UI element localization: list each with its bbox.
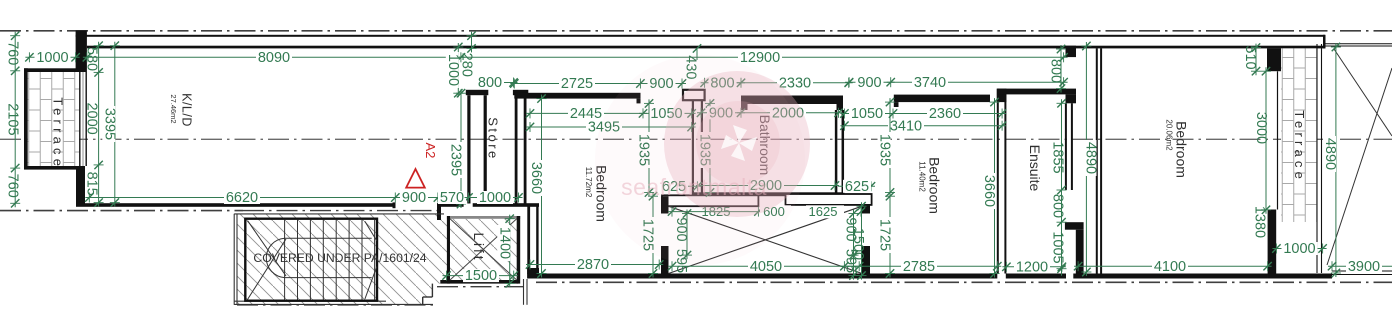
svg-text:1200: 1200 <box>1016 259 1048 275</box>
open terrace bottom thin lines <box>1332 270 1392 272</box>
svg-text:625: 625 <box>845 179 869 195</box>
dim 900 bedroom2 top opening <box>845 75 895 91</box>
shaft X diagonals <box>669 206 863 273</box>
bottom wall resumes right of 900 door <box>438 203 464 207</box>
dim 800 bathroom top opening <box>700 75 745 91</box>
dim 4890 corridor <box>1081 42 1098 276</box>
svg-text:8090: 8090 <box>258 50 290 66</box>
dim 2000 bathroom <box>737 105 843 121</box>
watermark logo <box>595 55 810 265</box>
svg-text:2395: 2395 <box>448 144 464 176</box>
svg-text:Ensuite: Ensuite <box>1027 145 1043 192</box>
open terrace X diagonal 1 <box>1334 49 1392 136</box>
dim 3740 bedroom2 top <box>887 75 1068 91</box>
svg-text:3740: 3740 <box>914 75 946 91</box>
svg-text:1000: 1000 <box>445 54 461 86</box>
svg-text:27.46m2: 27.46m2 <box>169 94 178 123</box>
svg-text:1380: 1380 <box>1251 206 1267 238</box>
dim 6620 <box>85 190 399 206</box>
terrace brick paving <box>28 72 79 166</box>
boundary dash-dot under covered area <box>237 304 434 306</box>
dim 1050 bedroom2 door <box>840 106 897 122</box>
centre dash-dot line mid <box>0 138 1392 140</box>
svg-text:2870: 2870 <box>577 257 609 273</box>
stair wedge lines <box>365 221 377 241</box>
right terrace bottom wall <box>1268 274 1332 279</box>
dim 1000 terrace top <box>25 50 80 66</box>
shaft right wall lower piece <box>862 246 870 279</box>
dim 3660 bedroom2 <box>981 98 999 278</box>
bedroom1 left wall <box>527 204 530 275</box>
lift left wall <box>447 216 450 284</box>
svg-text:1625: 1625 <box>809 204 838 219</box>
dim 2445 <box>526 106 647 122</box>
svg-text:2000: 2000 <box>84 102 100 134</box>
bedroom1 bottom wall <box>527 274 661 279</box>
dim 3395 <box>101 42 119 207</box>
svg-text:4890: 4890 <box>1322 138 1338 170</box>
covered area bottom boundary <box>234 300 386 302</box>
svg-text:3000: 3000 <box>1253 112 1269 144</box>
shaft bottom wall <box>661 274 870 279</box>
dim 625 shaft right <box>838 179 875 195</box>
svg-text:1000: 1000 <box>36 50 68 66</box>
bedroom2/ensuite wall <box>997 89 999 274</box>
dim 1000 store opening <box>445 43 463 98</box>
dim 2725 bedroom1 top <box>510 76 644 92</box>
dim 1000 store width <box>465 190 523 206</box>
dim 2785 bedroom2 bottom <box>840 259 1001 275</box>
terrace top parapet <box>24 68 79 72</box>
svg-text:1005: 1005 <box>1050 231 1066 263</box>
svg-text:760: 760 <box>5 41 21 65</box>
svg-text:4890: 4890 <box>1083 142 1099 174</box>
bathroom bottom wall <box>692 192 845 196</box>
dim 625 shaft left <box>660 179 702 195</box>
dim 900 bathroom door <box>697 105 745 121</box>
svg-text:760: 760 <box>5 174 21 198</box>
svg-text:1400: 1400 <box>496 227 512 259</box>
shaft left wall upper piece <box>661 196 669 213</box>
A2 red triangle marker <box>406 169 425 188</box>
right terrace right thin wall <box>1316 44 1318 273</box>
top wall right end cap <box>1323 35 1326 49</box>
dim 900 shaft left wall <box>682 209 692 259</box>
step wall down to lift <box>437 203 441 220</box>
dim 3410 <box>840 118 1006 134</box>
svg-text:3395: 3395 <box>101 108 117 140</box>
stair treads <box>284 220 286 300</box>
dim 1935 bathroom left <box>697 99 715 197</box>
open terrace X diagonal 2 <box>1327 68 1392 265</box>
dim 4100 bedroom3 bottom <box>1074 259 1272 275</box>
watermark text <box>621 174 767 200</box>
svg-text:1855: 1855 <box>1050 141 1066 173</box>
top wall pier right (510) <box>1267 48 1281 71</box>
dim 12900 top <box>457 50 1068 66</box>
svg-text:3660: 3660 <box>981 175 997 207</box>
dim 2870 bedroom1 bottom <box>526 257 664 273</box>
terrace bottom parapet <box>24 166 79 170</box>
dim 1725 left of shaft <box>640 192 658 278</box>
dim 900 bedroom1 door <box>636 76 686 92</box>
svg-text:3660: 3660 <box>528 162 544 194</box>
beam over shaft (right) <box>786 194 872 205</box>
dim 3495 <box>526 120 696 136</box>
svg-text:A2: A2 <box>423 143 438 159</box>
dim chain 580/2000/815 <box>94 42 104 207</box>
covered area hatched region <box>237 214 450 305</box>
bedroom3 bottom wall <box>1073 274 1267 279</box>
svg-text:280: 280 <box>459 53 475 77</box>
dim 1050 bathroom door <box>639 106 696 122</box>
svg-text:K/L/D: K/L/D <box>180 93 194 127</box>
shaft left wall lower piece <box>661 246 669 279</box>
svg-text:800: 800 <box>478 75 502 91</box>
shaft right wall upper piece <box>862 205 870 214</box>
top wall outer face <box>76 35 1325 37</box>
svg-text:510: 510 <box>1242 45 1258 69</box>
svg-text:Bedroom: Bedroom <box>1174 121 1190 178</box>
covered area left boundary <box>233 214 235 305</box>
lift right wall <box>517 216 521 284</box>
svg-text:1935: 1935 <box>877 134 893 166</box>
bedroom3 left wall <box>1096 48 1098 273</box>
boundary dash-dot bottom-left <box>0 210 243 212</box>
bedroom2 top wall <box>894 95 990 103</box>
dim 1725 bedroom2 left <box>877 192 895 278</box>
boundary lines right of lift <box>523 279 525 305</box>
svg-text:1500: 1500 <box>465 268 497 284</box>
store left wall <box>466 90 489 95</box>
bedroom1/bathroom wall cap <box>683 90 705 100</box>
dim 1500 lift <box>442 268 518 284</box>
bedroom1/bathroom wall <box>692 100 694 192</box>
svg-text:Terrace: Terrace <box>1292 110 1307 183</box>
svg-text:1050: 1050 <box>851 106 883 122</box>
dim 800 store top opening <box>476 75 518 91</box>
stair U path <box>266 238 371 277</box>
bedroom1 top wall <box>514 93 640 99</box>
svg-text:3410: 3410 <box>890 118 922 134</box>
svg-text:seafrontmalta: seafrontmalta <box>621 174 767 200</box>
dim 2330 bathroom top wall <box>737 75 853 91</box>
dim 1400 lift <box>496 215 514 288</box>
svg-text:Lift: Lift <box>471 232 486 262</box>
dim 3000 terrace window <box>1261 67 1271 214</box>
lift top wall (grey door head) <box>447 216 520 219</box>
dim 2395 store left <box>448 89 466 208</box>
K/L/D bottom wall <box>85 203 395 207</box>
covered area step outline <box>431 284 433 297</box>
top wall pier at ensuite <box>1066 46 1077 57</box>
boundary dash-dot bottom-right <box>536 281 1392 283</box>
svg-text:1000: 1000 <box>1283 241 1315 257</box>
right terrace brick paving <box>1281 48 1317 222</box>
terrace left parapet <box>24 68 28 167</box>
svg-text:2785: 2785 <box>903 259 935 275</box>
svg-text:2105: 2105 <box>5 103 21 135</box>
ensuite right wall upper <box>1065 103 1067 190</box>
svg-text:3900: 3900 <box>1348 259 1380 275</box>
svg-text:Terrace: Terrace <box>51 97 66 170</box>
svg-text:4050: 4050 <box>750 259 782 275</box>
lift bottom wall <box>440 280 518 284</box>
svg-text:815: 815 <box>84 172 100 196</box>
ensuite right wall lower L <box>1065 222 1084 230</box>
svg-text:COVERED UNDER PA/1601/24: COVERED UNDER PA/1601/24 <box>253 251 426 265</box>
left wall upper (above terrace) <box>76 30 87 72</box>
bathroom right wall <box>835 110 838 193</box>
ensuite top wall <box>998 89 1076 95</box>
dim 3900 open terrace <box>1328 259 1392 275</box>
svg-text:20.06m2: 20.06m2 <box>1164 119 1173 151</box>
dim 900 kld door <box>391 190 442 206</box>
svg-text:Bedroom: Bedroom <box>927 157 943 214</box>
svg-text:Store: Store <box>486 117 501 161</box>
boundary dash-dot under lift <box>437 286 523 288</box>
bedroom3/terrace window <box>1277 71 1279 209</box>
svg-text:1500: 1500 <box>850 228 866 260</box>
covered area top boundary <box>234 213 444 215</box>
svg-text:800: 800 <box>1050 194 1066 218</box>
left wall lower (below terrace) <box>76 166 85 207</box>
beam over shaft (left) <box>662 195 758 206</box>
dim 2900 bathroom width <box>696 178 839 194</box>
dim 800 top opening at pier <box>1056 45 1066 93</box>
svg-text:2725: 2725 <box>561 76 593 92</box>
svg-text:570: 570 <box>440 190 464 206</box>
dim chain 760/2105/760 left <box>10 32 20 208</box>
bedroom2 bottom wall <box>843 274 997 279</box>
dim 3660 bedroom1 <box>528 94 546 277</box>
dim 900/1500/595 shaft right <box>849 209 859 279</box>
svg-text:1725: 1725 <box>877 219 893 251</box>
svg-text:11.72m2: 11.72m2 <box>584 167 593 198</box>
store right wall / bedroom1 partition <box>513 90 528 95</box>
stair corner X <box>248 221 287 277</box>
svg-text:900: 900 <box>857 75 881 91</box>
svg-text:12900: 12900 <box>740 50 780 66</box>
dim 4890 right terrace <box>1322 43 1341 277</box>
svg-text:4100: 4100 <box>1154 259 1186 275</box>
dim 2360 bedroom2 <box>889 106 1006 122</box>
dim 280 wall <box>467 32 477 53</box>
dim 1935 bedroom1 right <box>636 99 654 197</box>
dim 4050 shaft width <box>668 259 864 275</box>
svg-text:580: 580 <box>84 47 100 71</box>
lift X diagonals <box>450 219 517 280</box>
svg-text:2360: 2360 <box>929 106 961 122</box>
dim chain 1855/800/1005 ensuite right <box>1057 99 1067 276</box>
lift shaft hatched interior <box>450 219 517 280</box>
dim 430 <box>693 44 701 52</box>
svg-text:11.40m2: 11.40m2 <box>917 161 926 192</box>
site boundary dash-dot top <box>0 30 1392 32</box>
svg-text:900: 900 <box>402 190 426 206</box>
ensuite bottom wall <box>1006 274 1066 279</box>
bedroom3 right wall lower <box>1268 210 1277 279</box>
staircase outline <box>245 219 377 301</box>
open terrace top thin double line <box>1325 43 1392 45</box>
dim 570 <box>434 190 473 206</box>
top wall inner face <box>87 46 1325 49</box>
dim 1935 bedroom2 <box>877 98 895 197</box>
svg-text:6620: 6620 <box>226 190 258 206</box>
svg-text:800: 800 <box>1048 59 1064 83</box>
dim 8090 top <box>83 50 465 66</box>
bathroom top wall <box>741 96 843 105</box>
dim 1200 ensuite bottom <box>1002 259 1066 275</box>
dim 1000 right terrace <box>1272 241 1327 257</box>
K/L/D terrace glazing <box>79 72 81 166</box>
svg-text:1000: 1000 <box>479 190 511 206</box>
dim 510 pier <box>1251 43 1261 75</box>
dim chain 1825/600/1625 shaft top <box>668 207 865 217</box>
